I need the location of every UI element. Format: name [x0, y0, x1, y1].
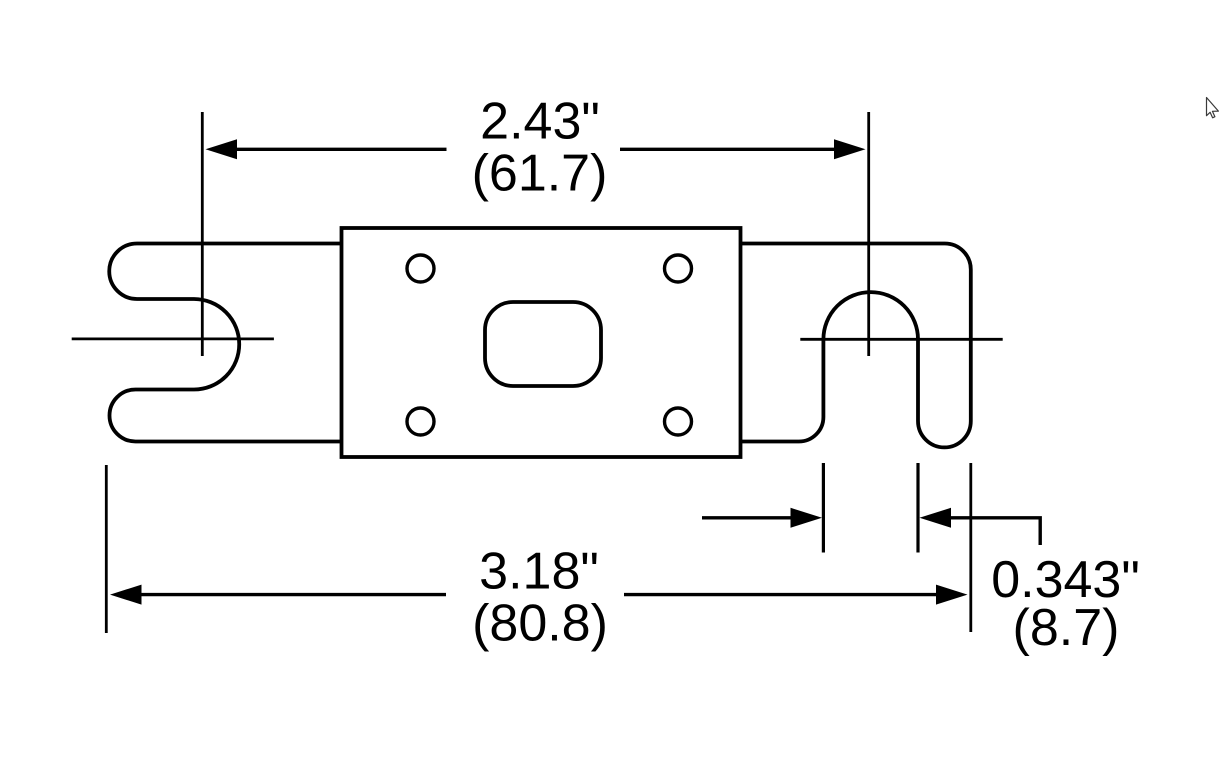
3.18 dimension right arrowhead	[936, 585, 968, 605]
0.343 dimension right leader line with drop	[948, 518, 1040, 545]
oblong center window	[485, 302, 601, 386]
left extension line of 0.343 dimension	[822, 463, 825, 553]
2.43 dimension right arrowhead	[834, 139, 866, 159]
0.343 dimension left arrowhead pointing right	[791, 508, 823, 528]
svg-text:3.18": 3.18"	[479, 543, 599, 601]
2.43 dimension line right segment	[620, 148, 837, 151]
left slot horizontal centerline	[72, 337, 274, 340]
mounting hole top-right	[665, 255, 692, 282]
svg-text:(8.7): (8.7)	[1013, 599, 1120, 657]
3.18 dimension line right segment	[624, 593, 938, 596]
mounting hole bottom-right	[665, 408, 692, 435]
left extension line of 2.43 dimension	[201, 112, 204, 356]
3.18 dimension line left segment	[138, 593, 446, 596]
right extension line of 2.43 dimension	[867, 112, 870, 356]
2.43 dimension left arrowhead	[206, 139, 238, 159]
right extension line of 3.18 dimension	[969, 463, 972, 632]
svg-text:(80.8): (80.8)	[472, 595, 608, 653]
right slotted terminal	[741, 244, 971, 448]
right slot horizontal centerline	[800, 338, 1002, 341]
right extension line of 0.343 dimension	[916, 463, 919, 553]
2.43 dimension line left segment	[234, 148, 447, 151]
mounting hole bottom-left	[407, 408, 434, 435]
mounting hole top-left	[407, 255, 434, 282]
left slotted terminal	[109, 244, 341, 442]
svg-text:2.43": 2.43"	[480, 93, 600, 151]
left extension line of 3.18 dimension	[105, 465, 108, 633]
mouse cursor	[1207, 98, 1219, 118]
0.343 dimension left leader line	[702, 516, 792, 519]
fuse body rectangle	[342, 228, 741, 457]
0.343 dimension right arrowhead pointing left	[920, 508, 952, 528]
3.18 dimension left arrowhead	[110, 585, 142, 605]
svg-text:(61.7): (61.7)	[472, 145, 608, 203]
